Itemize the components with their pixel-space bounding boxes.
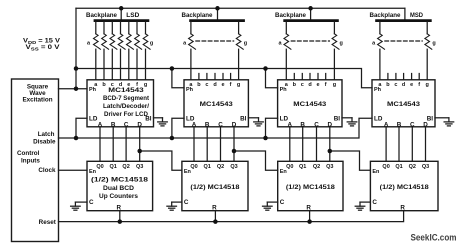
LCD backplane bar 2 (189, 19, 245, 22)
svg-text:R: R (117, 204, 122, 211)
svg-text:BI: BI (334, 115, 341, 122)
svg-text:g: g (333, 82, 336, 88)
junction latch line stage 2 (170, 136, 175, 141)
dashed ellipsis segments b-f digit 2 (196, 40, 234, 42)
svg-text:MC14543: MC14543 (293, 101, 327, 108)
junction top bus / backplane 2 (215, 6, 220, 11)
wire: latch disable line (59, 118, 373, 138)
svg-text:g: g (237, 82, 240, 88)
wire: top bus drop to backplane bar 1 (120, 8, 122, 20)
svg-text:Q0: Q0 (286, 164, 293, 170)
op-amp-style IC: MC14543 decoder U1 (87, 80, 154, 129)
junction top bus / backplane 1 (119, 6, 124, 11)
ground at C pin counter 4 (355, 202, 365, 210)
dashed ellipsis segments b-f digit 4 (385, 40, 422, 42)
LCD segment element g digit 3 (332, 22, 339, 80)
svg-text:d: d (402, 82, 405, 88)
svg-text:(1/2) MC14518: (1/2) MC14518 (286, 184, 336, 191)
svg-text:MC14543: MC14543 (108, 87, 144, 94)
svg-text:En: En (372, 169, 380, 175)
wire: C pin counter 4 to ground (360, 201, 370, 203)
svg-text:En: En (184, 169, 192, 175)
svg-text:Q1: Q1 (110, 164, 117, 170)
node: backplane 2 label (182, 12, 213, 19)
wire: latch disable riser to LD pin U1 (76, 118, 87, 138)
ground at BI pin U2 (254, 118, 264, 126)
junction reset line stage 2 (213, 219, 218, 224)
wire: Q3 counter 2 to En counter 3 (234, 151, 278, 170)
svg-text:Dual BCD: Dual BCD (103, 185, 134, 192)
wire: Q3 counter 1 to En counter 2 (140, 151, 182, 170)
svg-text:Clock: Clock (38, 167, 56, 174)
svg-text:Ph: Ph (374, 87, 382, 93)
svg-text:Q2: Q2 (409, 164, 416, 170)
svg-text:Q0: Q0 (382, 164, 389, 170)
wires: decoder 4 inputs A-D to counter outputs Q0-Q3 (386, 127, 425, 162)
junction Ph line stage 2 (170, 66, 175, 71)
svg-text:En: En (280, 169, 288, 175)
svg-text:Ph: Ph (186, 87, 194, 93)
LCD backplane bar 3 (283, 19, 339, 22)
junction Q3 stage 3 (328, 149, 333, 154)
svg-text:MSD: MSD (410, 12, 423, 19)
LCD segment elements a-g digit 1 (LSD) (94, 22, 151, 80)
svg-text:R: R (400, 204, 405, 211)
svg-text:c: c (205, 82, 208, 88)
wires: decoder 1 inputs A-D to counter outputs Q0-Q3 (100, 127, 140, 162)
svg-text:f: f (230, 82, 232, 88)
IC: (1/2) MC14518 counter U6 (182, 161, 248, 211)
svg-text:LD: LD (89, 115, 98, 122)
wire: riser from square wave output to top bus (75, 8, 77, 88)
svg-text:(1/2) MC14518: (1/2) MC14518 (91, 176, 149, 183)
wire: top bus drop to backplane bar 2 (217, 8, 219, 20)
wire: BI pin U1 to ground (154, 117, 163, 119)
LCD segment element a digit 3 (284, 22, 291, 80)
svg-text:Q3: Q3 (230, 164, 237, 170)
wire: square-wave backplane bus (top horizontal) (76, 7, 405, 9)
svg-text:R: R (212, 204, 217, 211)
wire: Q3 counter 3 to En counter 4 (330, 151, 371, 170)
wire: BI pin U2 to ground (248, 117, 258, 119)
wire: clock to En of U5 (59, 169, 88, 171)
wire: BI pin U3 to ground (342, 117, 352, 119)
svg-text:Q3: Q3 (326, 164, 333, 170)
ground at BI pin U1 (158, 118, 168, 126)
svg-text:g: g (144, 82, 147, 88)
svg-text:e: e (410, 82, 413, 88)
wire: C pin counter 1 to ground (75, 201, 87, 203)
junction Ph line stage 3 (263, 66, 268, 71)
svg-text:Q2: Q2 (217, 164, 224, 170)
op-amp-style IC: MC14543 decoder U2 (184, 80, 248, 129)
LCD segment element a digit 4 (378, 22, 385, 80)
node: backplane 1 label (86, 12, 140, 19)
svg-text:Disable: Disable (33, 138, 56, 145)
wire: Ph drop to decoder 3 (266, 69, 278, 88)
ground at C pin counter 1 (71, 202, 81, 210)
wire: latch disable riser to LD pin U3 (266, 118, 278, 138)
LCD segment element g digit 2 (236, 22, 243, 80)
svg-text:Control: Control (17, 150, 40, 157)
pin stubs b-f decoder 3 (294, 74, 325, 80)
junction reset line stage 1 (118, 219, 123, 224)
wire: top bus drop to backplane bar 3 (310, 8, 312, 20)
pin stubs b-f decoder 4 (388, 74, 419, 80)
svg-text:Q0: Q0 (190, 164, 197, 170)
node: backplane 3 label (275, 12, 306, 19)
wire: Ph phase line to all decoders (76, 69, 372, 88)
junction Q3 stage 1 (137, 149, 142, 154)
junction latch line stage 3 (263, 136, 268, 141)
wire: latch disable riser to LD pin U2 (172, 118, 184, 138)
svg-text:R: R (306, 204, 311, 211)
node: backplane 4 label (370, 12, 424, 19)
svg-text:g: g (340, 40, 343, 46)
junction Ph line / square riser (74, 66, 79, 71)
svg-text:e: e (221, 82, 224, 88)
svg-text:g: g (432, 40, 435, 46)
LCD backplane bar 4 (375, 19, 432, 22)
op-amp-style IC: MC14543 decoder U4 (372, 80, 435, 129)
wire: square wave excitation output to Ph of U1 (59, 88, 88, 90)
svg-text:d: d (308, 82, 311, 88)
ground at C pin counter 2 (167, 202, 177, 210)
svg-text:Q2: Q2 (313, 164, 320, 170)
wire: BI pin U4 to ground (435, 117, 449, 119)
junction square wave output (74, 86, 79, 91)
svg-text:Excitation: Excitation (22, 96, 52, 103)
svg-text:Backplane: Backplane (86, 12, 117, 19)
wire: C pin counter 2 to ground (172, 201, 182, 203)
wire: reset line (59, 211, 404, 222)
svg-text:BI: BI (145, 115, 152, 122)
svg-text:Backplane: Backplane (370, 12, 401, 19)
svg-text:f: f (418, 82, 420, 88)
LCD segment element g digit 4 (425, 22, 432, 80)
svg-text:LD: LD (374, 115, 383, 122)
svg-text:MC14543: MC14543 (387, 101, 421, 108)
IC: (1/2) MC14518 counter U5 (87, 161, 153, 211)
svg-text:Q3: Q3 (422, 164, 429, 170)
ground at C pin counter 3 (263, 202, 273, 210)
svg-text:Q3: Q3 (136, 164, 143, 170)
svg-text:g: g (150, 40, 153, 46)
svg-text:Q1: Q1 (204, 164, 211, 170)
svg-text:Reset: Reset (39, 219, 57, 226)
svg-text:d: d (213, 82, 216, 88)
junction latch line stage 1 (74, 136, 79, 141)
svg-text:LSD: LSD (126, 12, 139, 19)
svg-text:Ph: Ph (89, 87, 97, 93)
svg-text:(1/2) MC14518: (1/2) MC14518 (380, 184, 430, 191)
svg-text:BI: BI (240, 115, 247, 122)
svg-text:C: C (89, 199, 94, 206)
svg-text:Up Counters: Up Counters (99, 193, 138, 200)
wire: Ph drop to decoder 2 (172, 69, 184, 88)
junction top bus / backplane 3 (308, 6, 313, 11)
svg-text:c: c (301, 82, 304, 88)
svg-text:C: C (184, 199, 189, 206)
svg-text:Q0: Q0 (96, 164, 103, 170)
IC: (1/2) MC14518 counter U7 (278, 161, 343, 211)
svg-text:Driver For LCD: Driver For LCD (104, 111, 148, 118)
ground at BI pin U3 (347, 118, 357, 126)
svg-text:Backplane: Backplane (182, 12, 213, 19)
svg-text:Backplane: Backplane (275, 12, 306, 19)
junction reset line stage 3 (307, 219, 312, 224)
wires: decoder 3 inputs A-D to counter outputs Q0-Q3 (290, 127, 330, 162)
svg-text:Q1: Q1 (299, 164, 306, 170)
svg-text:Q1: Q1 (395, 164, 402, 170)
dashed ellipsis segments b-f digit 3 (291, 40, 329, 42)
svg-text:Latch: Latch (38, 131, 55, 138)
svg-text:g: g (426, 82, 429, 88)
svg-text:C: C (280, 199, 285, 206)
svg-text:SeekIC.com: SeekIC.com (411, 232, 457, 243)
wire: top bus drop to backplane bar 4 (404, 8, 406, 20)
IC: (1/2) MC14518 counter U8 (370, 161, 438, 211)
svg-text:f: f (325, 82, 327, 88)
ground at BI pin U4 (444, 118, 454, 126)
control input source box (square wave excitation / control inputs) (12, 79, 59, 242)
junction Q3 stage 2 (232, 149, 237, 154)
wire: R pin counter 3 to reset line (309, 211, 311, 222)
op-amp-style IC: MC14543 decoder U3 (278, 80, 342, 129)
svg-text:BCD-7 Segment: BCD-7 Segment (103, 95, 150, 102)
wire: R pin counter 1 to reset line (119, 211, 121, 222)
LCD backplane bar 1 (94, 19, 150, 22)
svg-text:Latch/Decoder/: Latch/Decoder/ (103, 103, 149, 110)
svg-text:(1/2) MC14518: (1/2) MC14518 (190, 184, 240, 191)
svg-text:En: En (89, 169, 97, 175)
wire: C pin counter 3 to ground (267, 201, 277, 203)
svg-text:g: g (244, 40, 247, 46)
svg-text:C: C (372, 199, 377, 206)
svg-text:e: e (316, 82, 319, 88)
svg-text:Ph: Ph (280, 87, 288, 93)
svg-text:Q2: Q2 (122, 164, 129, 170)
svg-text:Inputs: Inputs (21, 157, 40, 164)
svg-text:c: c (394, 82, 397, 88)
svg-text:MC14543: MC14543 (200, 101, 234, 108)
LCD segment element a digit 2 (189, 22, 196, 80)
wire: R pin counter 2 to reset line (214, 211, 216, 222)
pin stubs b-f decoder 2 (199, 74, 231, 80)
wires: decoder 2 inputs A-D to counter outputs Q0-Q3 (194, 127, 234, 162)
